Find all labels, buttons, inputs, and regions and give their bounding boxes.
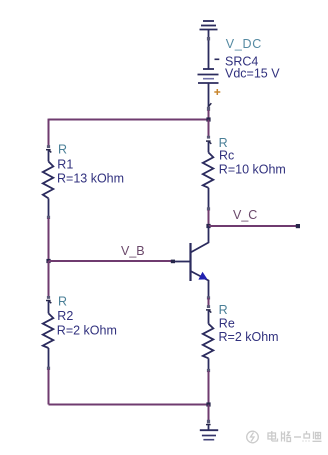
svg-text:Rc: Rc bbox=[219, 149, 234, 163]
svg-text:R: R bbox=[58, 295, 67, 309]
svg-text:Re: Re bbox=[219, 317, 235, 331]
svg-text:R=2 kOhm: R=2 kOhm bbox=[57, 324, 117, 338]
svg-text:V_C: V_C bbox=[233, 208, 257, 222]
svg-text:R1: R1 bbox=[57, 158, 73, 172]
svg-text:R2: R2 bbox=[57, 309, 73, 323]
svg-text:V_DC: V_DC bbox=[226, 37, 262, 51]
svg-text:R: R bbox=[58, 143, 67, 157]
svg-text:R=2 kOhm: R=2 kOhm bbox=[219, 330, 279, 344]
svg-text:R=10 kOhm: R=10 kOhm bbox=[219, 162, 286, 176]
svg-text:V_B: V_B bbox=[121, 244, 145, 258]
svg-text:R=13 kOhm: R=13 kOhm bbox=[57, 172, 124, 186]
svg-text:Vdc=15 V: Vdc=15 V bbox=[225, 66, 280, 80]
svg-text:R: R bbox=[219, 303, 228, 317]
